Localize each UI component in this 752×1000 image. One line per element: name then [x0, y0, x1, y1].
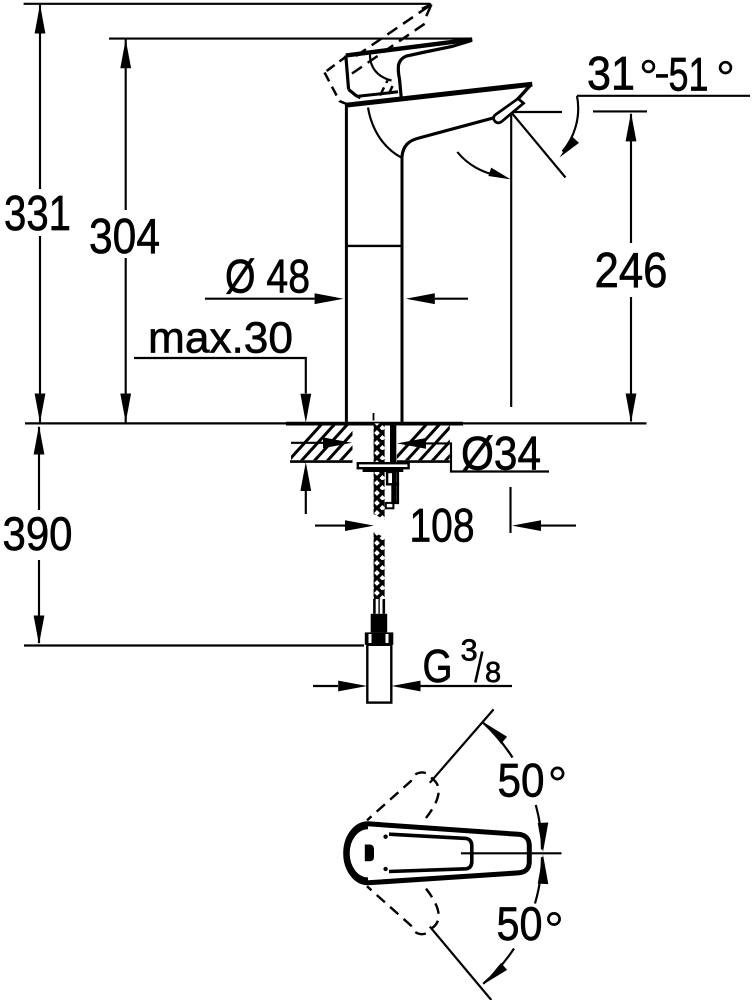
mounting fork foot — [386, 503, 394, 508]
top view cap mark — [365, 845, 374, 862]
top view lever inner contour — [389, 834, 472, 871]
dimension 108 left arrow — [345, 520, 374, 531]
dimension diameter 48 left arrow — [315, 293, 344, 304]
svg-text:50: 50 — [498, 754, 545, 807]
faucet deck top edge — [346, 84, 532, 105]
svg-text:304: 304 — [89, 210, 160, 264]
mounting fork upper — [387, 472, 398, 484]
top view cap inner thickening — [348, 828, 368, 880]
clamp bar — [363, 468, 404, 472]
dimension max.30 arrow up — [300, 462, 311, 491]
mounting stud lower part — [392, 472, 397, 503]
dimension 246 vertical line — [630, 114, 632, 243]
dimension diameter 48 right line — [435, 298, 468, 300]
dimension G3/8 right arrow — [392, 681, 421, 692]
lower arc arrowhead at ray — [484, 963, 508, 984]
top view centerline — [461, 852, 562, 854]
dimension diameter 34 right arrow — [397, 438, 426, 449]
faucet centerline tick — [373, 413, 375, 421]
svg-text:390: 390 — [3, 507, 73, 560]
dimension 304 reference line — [109, 38, 471, 40]
hose collar — [374, 599, 383, 614]
dimension G3/8 right line — [421, 685, 513, 687]
mounting fork lower — [393, 484, 398, 503]
dimension diameter 34 left arrow — [323, 437, 352, 448]
dashed lifted handle — [325, 4, 432, 106]
countertop — [25, 423, 647, 461]
svg-text:31: 31 — [587, 47, 635, 100]
dimension max.30 arrow down — [300, 394, 311, 423]
svg-text:Ø34: Ø34 — [461, 427, 541, 480]
faucet spout underside — [402, 118, 495, 157]
dimension 31-51 leader arc — [563, 96, 579, 152]
dimension diameter 48 right arrow — [406, 293, 435, 304]
lifted handle blade upper dashed line — [356, 4, 431, 56]
svg-text:51: 51 — [669, 48, 709, 101]
aerator vertical extension line — [510, 114, 512, 407]
top view lever outer outline — [346, 824, 530, 883]
dimension 331 vertical line — [39, 5, 41, 190]
lifted handle neck dashed zigzag — [380, 81, 393, 100]
dimension diameter 34 leader — [426, 443, 549, 471]
dimension 390 arrow down — [34, 616, 45, 645]
dimension 246 arrow down — [626, 394, 637, 423]
svg-text:8: 8 — [485, 657, 501, 689]
handle lever underside and neck — [398, 41, 471, 99]
faucet column joint line — [345, 245, 404, 247]
top view dashed handle up — [367, 772, 439, 820]
countertop bottom surface line left — [290, 460, 353, 463]
faucet column left edge — [345, 105, 348, 423]
lower swing arc — [535, 857, 542, 903]
countertop top surface thick segment — [286, 422, 463, 426]
aerator flow arc arrowhead — [488, 168, 510, 180]
top view: pivot cap — [346, 824, 530, 883]
svg-text:50: 50 — [497, 897, 543, 950]
faucet aerator slab — [494, 99, 524, 123]
dimension 108 left line — [315, 525, 345, 527]
countertop hatching left — [280, 415, 395, 470]
dimension 246 top tick line — [593, 110, 647, 112]
dimension 390 bottom reference line — [24, 644, 364, 646]
faucet body side view — [345, 39, 532, 422]
dimension 108 right extension line — [509, 487, 511, 533]
faucet column right edge — [401, 157, 404, 423]
lifted handle rear edge dashed — [325, 56, 348, 73]
dimension G3/8 left line — [313, 685, 338, 687]
handle rear edge — [346, 56, 349, 90]
top view swing rays and arcs — [430, 709, 562, 1000]
lifted handle open arrowhead — [422, 4, 432, 16]
dimension 246 arrow up — [626, 112, 637, 141]
faucet spout end face — [517, 85, 532, 101]
handle lever top edge — [346, 39, 473, 55]
lifted handle bottom dashed — [325, 73, 352, 107]
dimension 108 right arrow — [512, 520, 541, 531]
upper swing arc — [536, 805, 542, 850]
dimension diameter 34 left line — [291, 442, 324, 444]
connection tube — [367, 645, 391, 703]
aerator flow arc — [457, 152, 498, 176]
upper arc arrowhead at ray — [484, 722, 508, 743]
dimension 31-51 underline — [577, 95, 750, 97]
upper swing ray — [430, 709, 494, 782]
mounting stud — [390, 424, 396, 463]
washer plate under counter — [358, 463, 409, 468]
braided hose upper segment — [374, 423, 385, 519]
lower swing ray — [430, 927, 492, 1000]
dimension 390 vertical line — [38, 427, 40, 510]
dimension 331 arrow up — [35, 5, 46, 34]
aerator reference horizontal line — [512, 111, 562, 113]
aerator spray diagonal line — [511, 112, 566, 178]
braided hose lower segment — [374, 532, 385, 599]
svg-text:max.30: max.30 — [148, 314, 293, 363]
svg-text:Ø 48: Ø 48 — [225, 250, 310, 303]
handle dome arc — [370, 54, 392, 81]
lower arc arrowhead at centerline — [538, 855, 549, 885]
dimension max.30 underline — [134, 358, 306, 394]
dimension 304 arrow down — [120, 394, 131, 423]
hose ferrule — [371, 614, 388, 633]
upper arc arrowhead at centerline — [538, 823, 549, 853]
dimension 304 arrow up — [120, 39, 131, 68]
top view dashed handle down — [367, 886, 439, 934]
handle bottom edge — [358, 92, 398, 97]
top view dot upper — [383, 835, 387, 839]
dimension 390 arrow up — [34, 426, 45, 455]
faucet body shoulder arc — [368, 108, 402, 158]
hose nut — [365, 632, 394, 644]
dimension G3/8 left arrow — [338, 681, 367, 692]
svg-text:G: G — [423, 640, 453, 692]
svg-text:108: 108 — [410, 499, 475, 552]
dimension 108 right line — [541, 525, 576, 527]
dimension 304 vertical line — [125, 39, 127, 210]
countertop bottom surface line right — [397, 460, 450, 463]
countertop hatching right — [385, 415, 500, 470]
svg-text:3: 3 — [461, 633, 478, 668]
dimension diameter 48 left line — [205, 298, 315, 300]
handle rear chamfer — [349, 90, 361, 98]
svg-text:331: 331 — [4, 187, 71, 241]
svg-text:246: 246 — [595, 244, 668, 298]
dimension 31-51 leader arrowhead — [560, 137, 580, 157]
dimension 331 arrow down — [35, 394, 46, 423]
dimension 331 top reference line — [24, 3, 431, 5]
lifted handle blade lower dashed line — [352, 22, 428, 74]
top view dot lower — [383, 867, 387, 871]
countertop top surface line — [25, 422, 647, 424]
